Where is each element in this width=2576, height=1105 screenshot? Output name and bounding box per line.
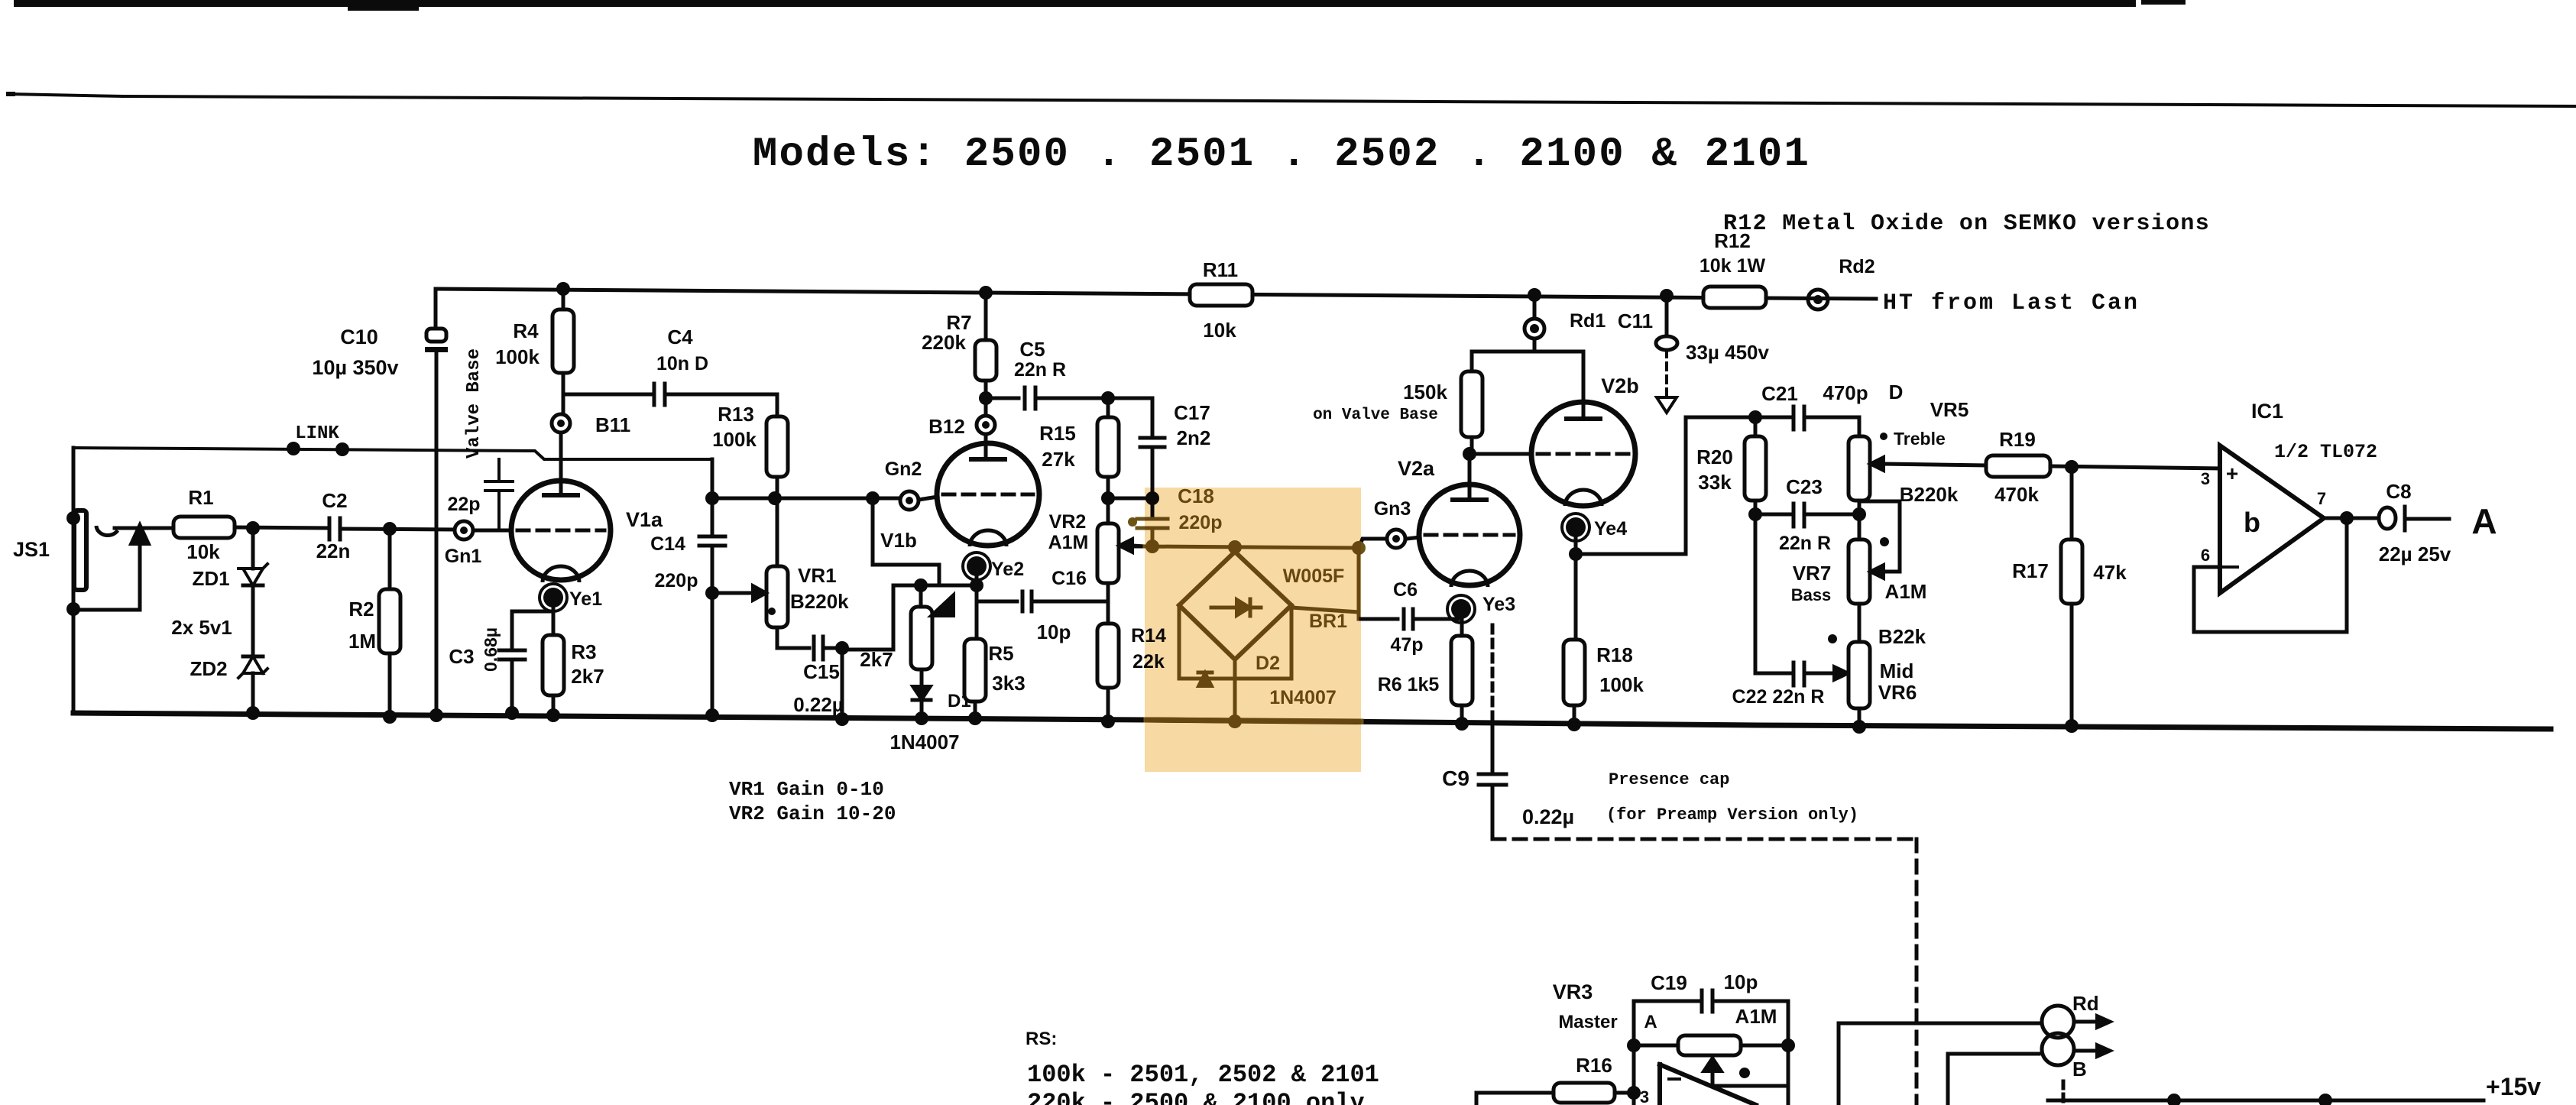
svg-text:B22k: B22k bbox=[1878, 625, 1926, 648]
svg-text:R13: R13 bbox=[718, 403, 754, 426]
svg-text:VR2: VR2 bbox=[1049, 511, 1087, 533]
svg-text:VR3: VR3 bbox=[1553, 980, 1593, 1003]
svg-text:ZD2: ZD2 bbox=[190, 657, 227, 680]
svg-text:10n D: 10n D bbox=[656, 353, 708, 374]
svg-text:Ye1: Ye1 bbox=[569, 588, 602, 610]
svg-text:27k: 27k bbox=[1042, 448, 1075, 471]
svg-text:Treble: Treble bbox=[1894, 429, 1946, 449]
svg-text:Gn1: Gn1 bbox=[445, 546, 482, 567]
svg-text:C15: C15 bbox=[803, 660, 840, 683]
svg-text:R12: R12 bbox=[1714, 229, 1751, 252]
svg-text:100k - 2501, 2502 & 2101: 100k - 2501, 2502 & 2101 bbox=[1027, 1061, 1379, 1089]
svg-text:Valve Base: Valve Base bbox=[464, 348, 484, 459]
svg-text:A: A bbox=[2471, 501, 2497, 541]
svg-text:10p: 10p bbox=[1037, 621, 1071, 643]
svg-text:10k 1W: 10k 1W bbox=[1700, 255, 1766, 277]
svg-text:150k: 150k bbox=[1403, 381, 1447, 403]
svg-text:33µ 450v: 33µ 450v bbox=[1686, 341, 1770, 364]
svg-text:0.22µ: 0.22µ bbox=[793, 693, 844, 716]
svg-text:C16: C16 bbox=[1051, 568, 1087, 589]
svg-text:JS1: JS1 bbox=[13, 538, 50, 561]
svg-text:VR1: VR1 bbox=[798, 564, 837, 587]
svg-text:1N4007: 1N4007 bbox=[889, 731, 959, 753]
svg-text:Rd2: Rd2 bbox=[1839, 256, 1874, 277]
svg-text:1/2 TL072: 1/2 TL072 bbox=[2274, 441, 2377, 463]
svg-text:1M: 1M bbox=[348, 630, 376, 653]
svg-text:2k7: 2k7 bbox=[860, 648, 893, 671]
svg-text:C19: C19 bbox=[1651, 971, 1687, 994]
svg-text:3: 3 bbox=[2201, 469, 2210, 488]
svg-text:R16: R16 bbox=[1576, 1054, 1612, 1077]
svg-text:6: 6 bbox=[2201, 546, 2210, 565]
svg-text:B12: B12 bbox=[928, 415, 965, 438]
svg-text:0.68µ: 0.68µ bbox=[481, 627, 501, 672]
svg-text:A1M: A1M bbox=[1048, 532, 1089, 553]
svg-text:VR6: VR6 bbox=[1878, 681, 1917, 704]
svg-text:B: B bbox=[2072, 1058, 2087, 1081]
svg-text:C2: C2 bbox=[322, 489, 347, 512]
svg-text:22n R: 22n R bbox=[1779, 533, 1831, 554]
svg-text:VR7: VR7 bbox=[1793, 562, 1832, 585]
svg-text:Bass: Bass bbox=[1791, 585, 1832, 604]
svg-text:B220k: B220k bbox=[790, 590, 849, 613]
svg-text:Rd1: Rd1 bbox=[1570, 310, 1606, 332]
svg-text:A1M: A1M bbox=[1885, 580, 1927, 603]
svg-text:R20: R20 bbox=[1696, 446, 1733, 468]
svg-text:V2a: V2a bbox=[1398, 457, 1435, 480]
svg-text:R2: R2 bbox=[348, 598, 374, 621]
svg-text:220p: 220p bbox=[655, 570, 698, 591]
svg-text:D: D bbox=[1889, 381, 1904, 403]
svg-text:R1: R1 bbox=[188, 486, 213, 509]
svg-text:Gn3: Gn3 bbox=[1374, 498, 1411, 520]
svg-text:HT from Last Can: HT from Last Can bbox=[1883, 290, 2140, 316]
svg-text:VR2 Gain 10-20: VR2 Gain 10-20 bbox=[729, 802, 896, 825]
svg-text:470p: 470p bbox=[1823, 381, 1868, 404]
svg-text:10k: 10k bbox=[186, 540, 220, 563]
svg-text:Mid: Mid bbox=[1880, 659, 1914, 682]
svg-text:VR1 Gain 0-10: VR1 Gain 0-10 bbox=[729, 778, 884, 801]
svg-text:B220k: B220k bbox=[1900, 483, 1959, 506]
svg-text:10k: 10k bbox=[1203, 319, 1236, 342]
svg-text:2k7: 2k7 bbox=[571, 665, 604, 688]
svg-text:C21: C21 bbox=[1761, 382, 1798, 405]
svg-text:b: b bbox=[2244, 507, 2260, 538]
svg-text:VR5: VR5 bbox=[1930, 398, 1969, 421]
svg-text:+15v: +15v bbox=[2486, 1073, 2541, 1100]
svg-text:A: A bbox=[1644, 1012, 1657, 1032]
svg-text:C14: C14 bbox=[650, 533, 685, 555]
svg-text:Ye4: Ye4 bbox=[1594, 518, 1627, 540]
svg-text:47k: 47k bbox=[2093, 561, 2127, 584]
svg-text:C9: C9 bbox=[1442, 766, 1469, 790]
svg-text:10µ 350v: 10µ 350v bbox=[312, 356, 398, 379]
svg-text:2n2: 2n2 bbox=[1177, 426, 1211, 449]
svg-text:R12 Metal Oxide on SEMKO versi: R12 Metal Oxide on SEMKO versions bbox=[1723, 211, 2210, 237]
svg-text:2x 5v1: 2x 5v1 bbox=[171, 616, 232, 639]
svg-text:22p: 22p bbox=[447, 494, 480, 515]
svg-text:R15: R15 bbox=[1039, 422, 1076, 445]
svg-text:R6 1k5: R6 1k5 bbox=[1378, 674, 1440, 695]
svg-text:C10: C10 bbox=[340, 326, 378, 348]
svg-text:C11: C11 bbox=[1618, 309, 1653, 332]
svg-text:3k3: 3k3 bbox=[992, 672, 1025, 695]
svg-text:C22 22n R: C22 22n R bbox=[1732, 686, 1825, 708]
svg-text:10p: 10p bbox=[1724, 971, 1758, 993]
svg-text:22µ 25v: 22µ 25v bbox=[2379, 543, 2451, 565]
svg-text:+: + bbox=[2226, 462, 2238, 485]
svg-text:R5: R5 bbox=[988, 642, 1013, 665]
svg-text:(for Preamp Version only): (for Preamp Version only) bbox=[1606, 805, 1858, 825]
svg-text:C4: C4 bbox=[667, 326, 693, 348]
svg-text:100k: 100k bbox=[712, 428, 757, 451]
svg-text:LINK: LINK bbox=[295, 423, 339, 444]
svg-text:220k - 2500 & 2100 only: 220k - 2500 & 2100 only bbox=[1027, 1089, 1365, 1105]
svg-text:C8: C8 bbox=[2386, 480, 2411, 503]
svg-text:B11: B11 bbox=[595, 413, 630, 436]
svg-text:IC1: IC1 bbox=[2251, 400, 2283, 423]
svg-text:R3: R3 bbox=[571, 640, 596, 663]
svg-text:C17: C17 bbox=[1174, 401, 1210, 424]
svg-text:R19: R19 bbox=[1999, 428, 2036, 451]
svg-text:V1b: V1b bbox=[880, 529, 917, 552]
svg-text:on Valve Base: on Valve Base bbox=[1313, 407, 1438, 424]
svg-text:Ye2: Ye2 bbox=[991, 559, 1024, 580]
svg-text:22n: 22n bbox=[316, 540, 351, 562]
svg-text:Rd: Rd bbox=[2072, 992, 2099, 1015]
svg-text:R4: R4 bbox=[513, 319, 539, 342]
svg-text:Presence cap: Presence cap bbox=[1609, 770, 1729, 789]
svg-text:470k: 470k bbox=[1994, 483, 2039, 506]
svg-text:47p: 47p bbox=[1390, 634, 1423, 656]
svg-text:0.22µ: 0.22µ bbox=[1522, 805, 1574, 828]
svg-text:V1a: V1a bbox=[626, 508, 663, 531]
svg-text:C3: C3 bbox=[449, 645, 474, 668]
svg-text:R18: R18 bbox=[1596, 643, 1633, 666]
svg-text:R11: R11 bbox=[1203, 258, 1238, 281]
svg-text:100k: 100k bbox=[1599, 673, 1644, 696]
svg-text:Models: 2500 . 2501 . 2502 . 2: Models: 2500 . 2501 . 2502 . 2100 & 2101 bbox=[753, 131, 1810, 178]
svg-text:V2b: V2b bbox=[1601, 374, 1639, 397]
svg-text:22n R: 22n R bbox=[1014, 359, 1066, 381]
svg-text:220k: 220k bbox=[922, 331, 966, 354]
svg-text:C23: C23 bbox=[1786, 475, 1823, 498]
svg-text:R17: R17 bbox=[2012, 559, 2049, 582]
svg-text:Ye3: Ye3 bbox=[1482, 594, 1515, 615]
svg-text:33k: 33k bbox=[1698, 471, 1732, 494]
svg-text:3: 3 bbox=[1640, 1087, 1649, 1105]
svg-text:A1M: A1M bbox=[1735, 1005, 1777, 1028]
svg-text:C6: C6 bbox=[1393, 579, 1418, 601]
svg-text:100k: 100k bbox=[495, 345, 540, 368]
svg-text:7: 7 bbox=[2317, 489, 2326, 508]
svg-text:ZD1: ZD1 bbox=[192, 567, 229, 590]
svg-text:Master: Master bbox=[1558, 1012, 1617, 1032]
svg-text:Gn2: Gn2 bbox=[885, 459, 922, 480]
svg-text:C5: C5 bbox=[1019, 338, 1045, 361]
svg-text:RS:: RS: bbox=[1026, 1029, 1057, 1049]
